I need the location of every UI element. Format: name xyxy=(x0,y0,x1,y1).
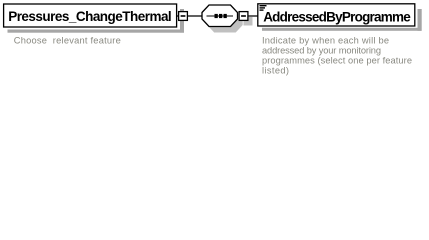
expand/collapse button 2 (minus) shadow xyxy=(244,17,253,26)
annotation text: Indicate by when each will be addressed... xyxy=(262,36,415,76)
svg-text:Indicate by when each will be: Indicate by when each will be addressed … xyxy=(262,36,415,76)
element box AddressedByProgramme xyxy=(258,4,415,26)
element box Pressures_ChangeThermal xyxy=(4,4,177,27)
svg-text:Pressures_ChangeThermal: Pressures_ChangeThermal xyxy=(8,9,172,24)
expand/collapse button 2 (minus) xyxy=(239,12,248,21)
sequence compositor (octagon with three dots) xyxy=(202,5,238,27)
annotation text: Choose relevant feature xyxy=(14,35,121,45)
wire from sequence to AddressedByProgramme xyxy=(237,15,258,17)
wire from Pressures_ChangeThermal to sequence xyxy=(177,15,204,17)
attributes icon (three lines, top-left of AddressedByProgramme) xyxy=(260,5,267,11)
svg-text:Choose relevant feature: Choose relevant feature xyxy=(14,35,121,45)
expand/collapse button 1 (minus) xyxy=(179,12,188,21)
element box AddressedByProgramme shadow xyxy=(262,9,422,31)
svg-text:AddressedByProgramme: AddressedByProgramme xyxy=(263,9,411,24)
sequence compositor shadow xyxy=(207,8,244,33)
element box Pressures_ChangeThermal shadow xyxy=(8,9,185,33)
